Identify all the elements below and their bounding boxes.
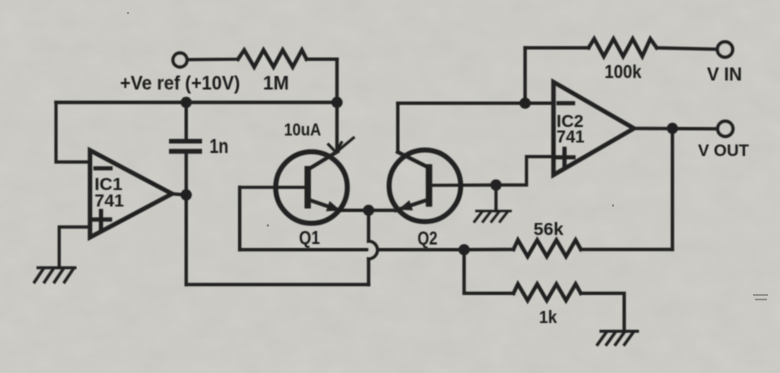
- wire IC1 plus input to ground: [59, 227, 90, 268]
- current arrow 10uA into Q1 collector: [329, 138, 354, 153]
- wire feedback to 56k: [581, 248, 673, 251]
- node rail / 1M junction: [331, 97, 342, 108]
- op-amp IC2 triangle: [554, 82, 635, 175]
- wire IC2 output feedback down: [671, 128, 674, 249]
- wire node up to 100k: [523, 48, 526, 103]
- wire rail down to IC1 inverting input: [56, 102, 90, 162]
- terminal V IN: [717, 42, 732, 57]
- ground at IC1 plus input: [35, 268, 76, 282]
- wire terminal to R 1M: [188, 58, 239, 62]
- resistor 100k: [589, 39, 657, 57]
- op-amp IC2 inverting input bar: [559, 101, 574, 105]
- wire divider node to Q1 base (passes under hop): [240, 248, 464, 251]
- transistor Q2 circle: [389, 150, 461, 222]
- wire Q2 base node down to ground: [494, 185, 497, 211]
- wire Q1 base lead: [240, 186, 305, 189]
- wire bottom run to emitters: [186, 283, 368, 286]
- op-amp IC2 non-inverting plus symbol: [556, 149, 574, 166]
- node divider 56k/1k/base: [459, 244, 470, 255]
- wire 56k to divider node: [464, 248, 513, 252]
- ground at 1k: [598, 331, 638, 344]
- node Q2 base / ground junction: [490, 179, 501, 190]
- node IC2 inverting input / 100k junction: [520, 98, 531, 109]
- wire R 1M to corner: [307, 58, 338, 61]
- node rail / capacitor junction: [181, 97, 192, 108]
- wire Q1 emitter to junction: [339, 209, 368, 212]
- node IC2 output: [667, 123, 678, 134]
- transistor Q1 emitter lead: [308, 200, 339, 211]
- transistor Q2 collector lead: [398, 152, 429, 168]
- op-amp IC1 non-inverting plus symbol: [92, 211, 110, 228]
- wire IC2 plus input to Q2 base node: [496, 157, 554, 185]
- wire IC2 output to V OUT terminal: [634, 127, 718, 131]
- wire Q2 emitter to junction: [369, 209, 396, 212]
- op-amp IC1 inverting input bar: [96, 166, 111, 170]
- terminal V OUT: [718, 121, 733, 136]
- wire 100k to V IN terminal: [657, 48, 718, 50]
- wire Q2 base lead to node: [432, 183, 496, 187]
- wire IC1 output to node: [172, 194, 186, 195]
- wire up to Q1 base: [238, 187, 241, 249]
- capacitor C1 1n bottom lead: [184, 154, 187, 195]
- op-amp IC1 triangle: [90, 150, 172, 237]
- transistor Q1 circle: [276, 152, 348, 224]
- wire hop (no connection): [369, 241, 378, 258]
- wire 100k left: [525, 46, 589, 49]
- wire divider node down to 1k: [464, 250, 513, 294]
- capacitor C1 1n top lead: [184, 102, 187, 139]
- transistor Q1 collector lead: [308, 152, 338, 170]
- wire vertical 1M corner down to Q1 collector: [335, 59, 338, 151]
- node IC1 output: [181, 189, 192, 200]
- transistor Q2 emitter arrowhead: [398, 200, 413, 210]
- wire supply rail: [56, 101, 337, 105]
- resistor 56k: [514, 240, 581, 257]
- resistor 1M: [238, 50, 307, 67]
- resistor 1k: [514, 284, 581, 301]
- terminal +Ve ref input: [173, 53, 187, 67]
- node emitters junction: [363, 205, 374, 216]
- wire Q2 collector to IC2 inverting input: [398, 101, 554, 104]
- scan smudge right edge: [753, 295, 768, 300]
- scan dust specks: [127, 12, 614, 227]
- ground at Q2 base: [475, 211, 511, 222]
- wire IC1 output down: [184, 195, 187, 285]
- wire 1k to ground: [581, 293, 624, 331]
- transistor Q2 base bar: [426, 164, 432, 207]
- transistor Q1 emitter arrowhead: [326, 201, 341, 211]
- capacitor C1 1n plates: [169, 139, 202, 154]
- wire emitters junction down to hop: [367, 210, 370, 241]
- wire Q2 collector up: [396, 103, 399, 152]
- transistor Q1 base bar: [305, 166, 311, 209]
- transistor Q2 emitter lead: [396, 200, 429, 211]
